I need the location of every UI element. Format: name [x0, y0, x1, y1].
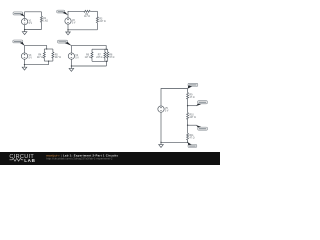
node tag GND (bottom): [188, 142, 197, 147]
svg-text:47 Ω: 47 Ω: [190, 97, 195, 99]
wire bottom rail c5: [161, 112, 188, 144]
junction dot c1: [24, 29, 25, 30]
junction dot c3 rail: [24, 64, 25, 65]
svg-text:LAB: LAB: [24, 158, 36, 163]
junction dot c3 bottom: [48, 60, 49, 61]
ground c5: [159, 145, 164, 148]
junction dot c4 bottom: [106, 61, 107, 62]
resistor R4: [37, 49, 45, 61]
wire V2 top to rail: [68, 11, 84, 18]
svg-text:247 Ω: 247 Ω: [96, 57, 102, 59]
wire V3 top to feed: [25, 46, 47, 53]
svg-text:117 Ω: 117 Ω: [85, 57, 91, 59]
resistor R1: [40, 12, 48, 30]
svg-text:117 Ω: 117 Ω: [37, 57, 43, 59]
node tag Vout2: [57, 10, 68, 15]
svg-text:1 kΩ: 1 kΩ: [43, 21, 48, 23]
resistor R11: [187, 125, 195, 142]
junction dot c5 A: [187, 105, 188, 106]
wire bottom rail c1: [25, 25, 42, 32]
ground c4: [69, 68, 74, 71]
top bar parallel c4: [92, 48, 108, 50]
voltage source V2: [65, 18, 76, 24]
voltage source V3: [21, 53, 32, 59]
junction dot c2: [67, 29, 68, 30]
bottom bar parallel c4: [92, 61, 108, 66]
wire V1 top to rail: [25, 12, 42, 19]
junction dot c5 rail: [160, 142, 161, 143]
voltage source V1: [21, 18, 32, 24]
resistor R10: [187, 106, 196, 126]
resistor R8: [107, 49, 115, 61]
bottom bar parallel c3: [44, 61, 53, 65]
top bar parallel c3: [44, 48, 53, 50]
resistor R5: [52, 49, 61, 61]
node tag Vout4: [58, 40, 72, 46]
node B lead + tag: [188, 125, 208, 130]
svg-text:http://circuitlab.com/c/2deog3: http://circuitlab.com/c/2deog337a3/lab-1…: [46, 158, 113, 161]
ground c2: [66, 32, 71, 35]
junction dot c5 B: [187, 125, 188, 126]
node tag Vout1: [13, 12, 25, 17]
resistor R6: [85, 49, 93, 61]
svg-text:247 Ω: 247 Ω: [55, 57, 61, 59]
node tag Vin (top): [188, 83, 198, 88]
junction dot c3 top: [46, 48, 47, 49]
svg-text:5 V: 5 V: [29, 57, 33, 59]
svg-text:47 Ω: 47 Ω: [109, 57, 114, 59]
wire V4 top to feed: [71, 46, 106, 53]
ground c3: [22, 67, 27, 70]
svg-text:5 V: 5 V: [29, 23, 33, 25]
wire V5 top rail: [161, 89, 188, 107]
resistor R2 (series, horizontal): [84, 10, 98, 18]
voltage source V5: [158, 106, 169, 112]
svg-text:247 Ω: 247 Ω: [190, 117, 196, 119]
svg-text:117 Ω: 117 Ω: [84, 16, 90, 18]
svg-text:5 V: 5 V: [165, 110, 169, 112]
svg-text:247 Ω: 247 Ω: [99, 21, 105, 23]
wire bottom rail c3: [25, 59, 49, 67]
node tag Vout3: [13, 40, 25, 46]
logo zigzag + LAB: [10, 158, 24, 161]
resistor R7: [96, 49, 106, 61]
resistor R9: [187, 89, 195, 106]
svg-text:5 V: 5 V: [72, 22, 76, 24]
svg-text:5 V: 5 V: [75, 57, 79, 59]
wire bottom rail c2: [68, 24, 97, 32]
svg-text:47 Ω: 47 Ω: [190, 138, 195, 140]
ground c1: [22, 32, 27, 35]
junction dot c4 rail: [71, 65, 72, 66]
resistor R3 (right vertical): [96, 11, 105, 30]
junction dot c5 chain bottom: [187, 142, 188, 143]
junction dot c4 top: [106, 49, 107, 50]
node A lead + tag: [188, 101, 208, 106]
wire bottom rail c4: [71, 59, 106, 68]
voltage source V4: [68, 53, 79, 59]
